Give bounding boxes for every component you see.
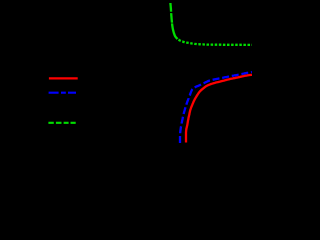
- green dashed curve, steep segment near vertical asymptote: [170, 3, 177, 39]
- dash notch in green steep segment (faint): [170, 22, 174, 25]
- legend blue dashed line: [49, 92, 76, 94]
- blue dashed curve (lower-right, rises and saturates): [180, 72, 252, 143]
- dash notch in green steep segment: [170, 12, 174, 13]
- legend green dashed line: [48, 122, 75, 124]
- green dashed curve, flat segment approaching y~44.5: [179, 40, 252, 45]
- chart canvas: [0, 0, 252, 163]
- legend red solid line: [49, 77, 78, 79]
- red solid curve (lower-right, rises and saturates): [186, 75, 252, 143]
